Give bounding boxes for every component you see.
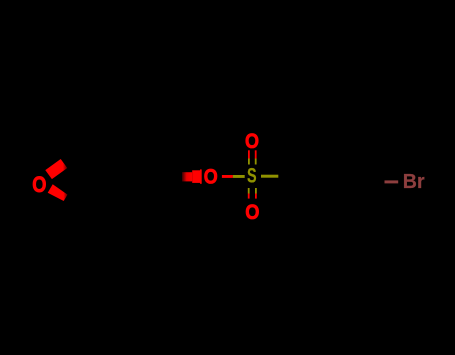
svg-text:O: O — [245, 129, 259, 153]
double bond S=O bottom, line 1 (olive half at S) — [248, 188, 250, 194]
svg-text:S: S — [247, 164, 257, 188]
double bond S=O bottom, line 1 (red half at O) — [248, 194, 250, 199]
svg-text:O: O — [245, 200, 259, 224]
svg-text:O: O — [204, 166, 218, 189]
double bond S=O bottom, line 2 (olive half at S) — [255, 188, 257, 194]
bond O-S (olive half at S) — [233, 175, 245, 178]
double bond S=O bottom, line 2 (red half at O) — [255, 194, 257, 199]
hashed wedge bond C3-O (sulfonate ester, red half) — [182, 169, 202, 183]
double bond S=O top, line 2 (red half at O) — [255, 150, 257, 158]
double bond S=O top, line 1 (olive half at S) — [248, 159, 250, 165]
double bond S=O top, line 1 (red half at O) — [248, 150, 250, 158]
svg-text:Br: Br — [403, 170, 425, 193]
bold wedge bond C1-O (epoxide, upper) — [45, 159, 67, 179]
double bond S=O top, line 2 (olive half at S) — [255, 159, 257, 165]
bond O-S (red half at O) — [222, 175, 233, 178]
bond C(aryl)-Br (maroon half at Br) — [385, 180, 399, 183]
bold wedge bond C6-O (epoxide, lower) — [48, 184, 68, 201]
bond S-C(aryl) (olive half at S; aryl half black/invisible) — [261, 175, 278, 178]
svg-text:O: O — [32, 172, 46, 197]
